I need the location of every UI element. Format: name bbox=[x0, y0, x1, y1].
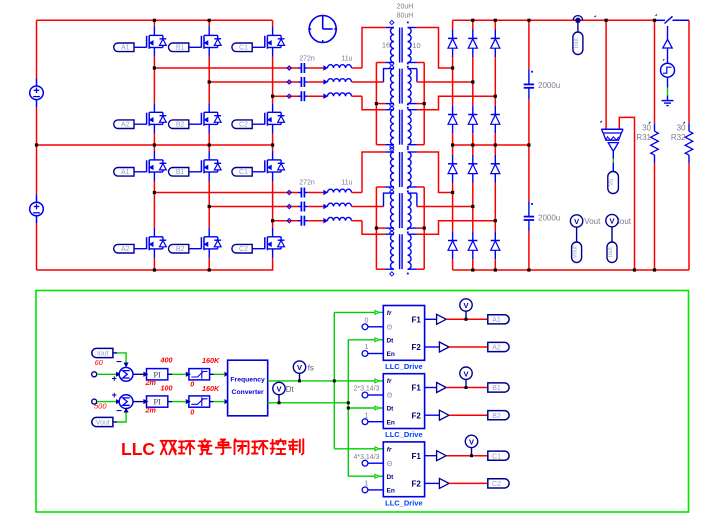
svg-text:Iout: Iout bbox=[97, 350, 109, 357]
wire: F2 output drive 3 bbox=[449, 482, 488, 484]
svg-text:1: 1 bbox=[365, 412, 369, 419]
wire: cap to inductor phase A bridge2 bbox=[308, 192, 324, 194]
gate label C2 (bridge 2) bbox=[232, 244, 252, 253]
transformer T4 bbox=[385, 145, 417, 194]
wire: bridge2 primary neutral bbox=[375, 187, 377, 269]
wire: source column bbox=[36, 20, 38, 78]
mosfet C1 (bridge 2) bbox=[265, 151, 285, 181]
svg-text:C2: C2 bbox=[239, 246, 248, 253]
wire: F1 output drive 2 bbox=[446, 387, 488, 389]
wire: inductor out phase A bridge2 bbox=[352, 192, 363, 194]
mosfet A1 (bridge 2) bbox=[147, 151, 167, 181]
clock symbol bbox=[309, 16, 336, 43]
capacitor 272n phase B bridge2 bbox=[287, 202, 308, 212]
label flag Iout (reference) bbox=[92, 348, 113, 357]
wire: bridge1 top rail bbox=[37, 19, 273, 21]
summer 1 bbox=[119, 367, 133, 381]
svg-text:2m: 2m bbox=[145, 378, 157, 387]
capacitor 2000u (bottom) bbox=[524, 216, 534, 218]
wire: bridge1 leg C verticals bbox=[272, 20, 274, 26]
wire: rectifier top rail bbox=[453, 19, 655, 21]
wire: bridge1 phase C to resonant tank bbox=[273, 95, 298, 97]
wire: inductor out phase B bridge2 bbox=[352, 206, 384, 208]
inductor 11u phase A bridge1 bbox=[324, 65, 352, 70]
wire: Vout flag to summer 2 bbox=[113, 421, 117, 423]
svg-text:B2: B2 bbox=[176, 246, 185, 253]
wire: PI 1 to limiter 1 bbox=[168, 373, 172, 375]
transformer T2 bbox=[385, 61, 417, 110]
capacitor 272n phase C bridge1 bbox=[287, 91, 308, 101]
svg-text:C1: C1 bbox=[239, 169, 248, 176]
gate label A1 (bridge 1) bbox=[114, 43, 134, 52]
gate label C2 (bridge 1) bbox=[232, 120, 252, 129]
svg-text:60: 60 bbox=[95, 358, 104, 367]
tick marks (misc small markers) bbox=[600, 121, 602, 123]
wire: bridge1 leg A verticals bbox=[153, 20, 155, 26]
svg-text:160K: 160K bbox=[202, 356, 220, 365]
LLC_Drive block 3 bbox=[362, 442, 439, 497]
gate label A2 (bridge 2) bbox=[114, 244, 134, 253]
wire: rectifier column 2 bbox=[472, 20, 474, 29]
limiter 2 bbox=[186, 396, 209, 407]
wire: Dt to drive1 bbox=[348, 339, 375, 341]
svg-text:C2: C2 bbox=[492, 481, 501, 488]
buffer F2 drive 2 bbox=[439, 410, 449, 420]
gate label A1 (bridge 2) bbox=[114, 168, 134, 177]
svg-text:2m: 2m bbox=[145, 406, 157, 415]
limiter 1 bbox=[186, 369, 209, 380]
inductor 11u phase A bridge2 bbox=[324, 189, 352, 194]
buffer F1 drive 3 bbox=[437, 451, 447, 461]
svg-text:−: − bbox=[116, 406, 122, 417]
svg-text:Vout: Vout bbox=[573, 246, 579, 258]
svg-text:Frequency: Frequency bbox=[230, 376, 265, 383]
svg-text:10: 10 bbox=[412, 41, 420, 50]
svg-text:+: + bbox=[112, 374, 117, 384]
svg-text:11u: 11u bbox=[341, 55, 352, 62]
svg-text:R32: R32 bbox=[671, 133, 686, 142]
wire: Vo sensor right input bbox=[619, 117, 634, 270]
resistor R31 bbox=[654, 20, 656, 123]
wire: limiter 1 to frequency converter bbox=[210, 373, 214, 375]
mosfet B2 (bridge 1) bbox=[201, 103, 221, 133]
wire: phase C to T3 primary bbox=[362, 96, 385, 110]
inductor 11u phase C bridge2 bbox=[324, 217, 352, 222]
svg-text:2000u: 2000u bbox=[538, 81, 560, 90]
diode D2 bbox=[468, 30, 477, 58]
wire: fs output bbox=[268, 380, 375, 382]
svg-text:Vout: Vout bbox=[584, 217, 601, 226]
mosfet C2 (bridge 1) bbox=[265, 103, 285, 133]
buffer F2 drive 1 bbox=[439, 342, 449, 352]
wire: F1 output drive 3 bbox=[446, 455, 488, 457]
svg-text:A2: A2 bbox=[492, 345, 501, 352]
svg-text:272n: 272n bbox=[299, 180, 315, 187]
mosfet A1 (bridge 1) bbox=[147, 26, 167, 56]
svg-text:20uH: 20uH bbox=[397, 3, 414, 10]
mosfet A2 (bridge 1) bbox=[147, 103, 167, 133]
wire: cap to inductor phase A bridge1 bbox=[308, 67, 324, 69]
wire: fs bus vertical bbox=[333, 312, 335, 448]
label flag C2 bbox=[488, 479, 509, 488]
gate label B2 (bridge 2) bbox=[169, 244, 189, 253]
svg-text:LLC_Drive: LLC_Drive bbox=[385, 498, 423, 507]
resistor R32 bbox=[688, 20, 690, 123]
mosfet B1 (bridge 1) bbox=[201, 26, 221, 56]
wire: rectifier column 1 bbox=[452, 20, 454, 29]
mosfet B2 (bridge 2) bbox=[201, 228, 221, 258]
wire: rectifier column 3 bbox=[494, 20, 496, 29]
wire: T1 secondary to rectifier phase 1 bbox=[417, 28, 453, 69]
wire: summer 2 to PI 2 bbox=[133, 401, 144, 403]
label flag B1 bbox=[488, 383, 509, 392]
svg-text:Iout: Iout bbox=[618, 217, 632, 226]
svg-text:B1: B1 bbox=[176, 169, 185, 176]
wire: F2 output drive 2 bbox=[449, 414, 488, 416]
wire: T4 secondary to rectifier phase 1 bbox=[417, 152, 453, 193]
wire: T5 secondary to rectifier phase 2 bbox=[416, 193, 418, 206]
wire: fs to drive3 fr bbox=[334, 448, 375, 450]
wire: Dt to drive3 bbox=[348, 475, 375, 477]
wire: phase B to T2 primary bbox=[384, 69, 386, 82]
capacitor 272n phase B bridge1 bbox=[287, 77, 308, 87]
wire: cap to inductor phase B bridge1 bbox=[308, 81, 324, 83]
svg-text:0: 0 bbox=[190, 380, 194, 389]
diode D5 bbox=[468, 106, 477, 134]
diode D6 bbox=[491, 106, 500, 134]
svg-text:30: 30 bbox=[642, 124, 651, 133]
wire: inductor out phase B bridge1 bbox=[352, 81, 384, 83]
PI regulator 2 bbox=[144, 396, 168, 407]
svg-text:LLC: LLC bbox=[121, 439, 155, 459]
svg-text:Vo: Vo bbox=[609, 178, 615, 186]
mosfet A2 (bridge 2) bbox=[147, 228, 167, 258]
svg-text:2000u: 2000u bbox=[538, 213, 560, 222]
voltage probe Dt bbox=[278, 395, 280, 403]
buffer F1 drive 1 bbox=[437, 314, 447, 324]
dc source V1 bbox=[30, 86, 44, 100]
svg-text:A1: A1 bbox=[492, 317, 501, 324]
svg-text:A2: A2 bbox=[121, 122, 130, 129]
svg-text:400: 400 bbox=[160, 355, 173, 364]
svg-text:0: 0 bbox=[365, 318, 369, 325]
capacitor 272n phase C bridge2 bbox=[287, 216, 308, 226]
svg-text:160K: 160K bbox=[202, 384, 220, 393]
label flag B2 bbox=[488, 411, 509, 420]
diode D9 bbox=[491, 155, 500, 183]
label flag A2 bbox=[488, 342, 509, 351]
wire: rectifier bottom rail bbox=[453, 269, 689, 271]
wire: Dt bus vertical bbox=[347, 340, 349, 476]
inductor 11u phase C bridge1 bbox=[324, 93, 352, 98]
wire: bridge2 phase A to resonant tank bbox=[154, 192, 298, 194]
wire: cap to inductor phase C bridge1 bbox=[308, 95, 324, 97]
voltage sensor Vo bbox=[601, 128, 623, 130]
wire: F1 output drive 1 bbox=[446, 318, 488, 320]
svg-text:Converter: Converter bbox=[232, 389, 264, 396]
input node circle 2 bbox=[92, 399, 97, 404]
wire: bridge2 leg C verticals bbox=[272, 145, 274, 151]
LLC_Drive block 2 bbox=[362, 374, 439, 429]
wire: T2 secondary to rectifier phase 2 bbox=[416, 69, 418, 82]
wire: inductor out phase C bridge1 bbox=[352, 95, 363, 97]
gate label C1 (bridge 1) bbox=[232, 43, 252, 52]
svg-text:0: 0 bbox=[190, 407, 194, 416]
svg-text:Vout: Vout bbox=[96, 419, 110, 426]
wire: bridge1 phase B to resonant tank bbox=[209, 81, 298, 83]
transformer T5 bbox=[385, 186, 417, 235]
wire: Dt to drive2 bbox=[348, 407, 375, 409]
svg-text:fs: fs bbox=[308, 363, 314, 372]
diode D1 bbox=[448, 30, 457, 58]
inductor 11u phase B bridge1 bbox=[324, 79, 352, 84]
wire: bridge1 primary neutral bbox=[375, 63, 377, 145]
wire: PI 2 to limiter 2 bbox=[168, 401, 172, 403]
wire: bridge2 bottom rail (left) bbox=[37, 269, 274, 271]
svg-text:16: 16 bbox=[382, 41, 390, 50]
gate label B1 (bridge 1) bbox=[169, 43, 189, 52]
svg-text:R31: R31 bbox=[636, 133, 651, 142]
PI regulator 1 bbox=[144, 369, 168, 380]
junction dots power stage bbox=[153, 19, 156, 22]
frequency converter block bbox=[228, 360, 268, 416]
wire: input to summer 2 bbox=[97, 401, 116, 403]
svg-text:C1: C1 bbox=[239, 45, 248, 52]
wire: cap to inductor phase C bridge2 bbox=[308, 220, 324, 222]
transformer T3 bbox=[385, 103, 417, 152]
capacitor 2000u (top) bbox=[524, 83, 534, 85]
gate label B1 (bridge 2) bbox=[169, 168, 189, 177]
svg-text:Iout: Iout bbox=[608, 247, 614, 257]
svg-text:C2: C2 bbox=[239, 122, 248, 129]
wire: bridge2 leg B verticals bbox=[208, 145, 210, 151]
input node circle 1 bbox=[92, 372, 97, 377]
label flag Vo bbox=[608, 172, 619, 194]
voltage probe Vout bbox=[570, 215, 582, 227]
wire: summer 1 to PI 1 bbox=[133, 373, 144, 375]
wire: Dt output bbox=[268, 402, 349, 404]
wire: bridge2 secondary neutral bbox=[423, 187, 425, 269]
diode D4 bbox=[448, 106, 457, 134]
transformer T1 bbox=[385, 20, 417, 69]
mosfet B1 (bridge 2) bbox=[201, 151, 221, 181]
wire: phase B to T5 primary bbox=[384, 193, 386, 206]
wire: bridge1 phase A to resonant tank bbox=[154, 67, 298, 69]
mosfet C1 (bridge 1) bbox=[265, 26, 285, 56]
diode D8 bbox=[468, 155, 477, 183]
transformer T6 bbox=[385, 227, 417, 276]
wire: inductor out phase A bridge1 bbox=[352, 67, 363, 69]
voltage probe on F1 drive 2 bbox=[465, 379, 467, 387]
wire: output cap string bbox=[528, 20, 530, 69]
current probe Iout (on output bus) bbox=[575, 18, 580, 23]
svg-text:1: 1 bbox=[365, 344, 369, 351]
wire: input to summer 1 bbox=[97, 373, 116, 375]
wire: F2 output drive 1 bbox=[449, 346, 488, 348]
junction dots control bbox=[298, 379, 301, 382]
svg-text:LLC_Drive: LLC_Drive bbox=[385, 362, 423, 371]
wire: bridge2 phase C to resonant tank bbox=[273, 220, 298, 222]
label flag Vout (feedback) bbox=[92, 417, 113, 426]
wire: T6 secondary to rectifier phase 3 bbox=[417, 221, 495, 235]
svg-text:1: 1 bbox=[365, 481, 369, 488]
voltage probe on F1 drive 1 bbox=[465, 311, 467, 319]
current probe flag Iout bbox=[606, 214, 618, 226]
wire: phase C to T6 primary bbox=[362, 221, 385, 235]
voltage probe on F1 drive 3 bbox=[471, 448, 473, 456]
svg-text:LLC_Drive: LLC_Drive bbox=[385, 430, 423, 439]
svg-text:30: 30 bbox=[677, 124, 686, 133]
diode D3 bbox=[491, 30, 500, 58]
svg-text:Iout: Iout bbox=[574, 38, 580, 48]
svg-text:Dt: Dt bbox=[286, 385, 295, 394]
on-off controller bbox=[663, 39, 672, 48]
dc source V2 bbox=[30, 202, 44, 216]
capacitor 272n phase A bridge2 bbox=[287, 188, 308, 198]
LLC_Drive block 1 bbox=[362, 306, 439, 361]
inductor 11u phase B bridge2 bbox=[324, 203, 352, 208]
voltage probe fs bbox=[299, 373, 301, 381]
wire: cap to inductor phase B bridge2 bbox=[308, 206, 324, 208]
wire: phase A to T1 primary bbox=[362, 28, 385, 69]
svg-text:B1: B1 bbox=[176, 45, 185, 52]
summer 2 bbox=[119, 395, 133, 409]
wire: limiter 2 to frequency converter bbox=[210, 401, 214, 403]
label flag C1 bbox=[488, 451, 509, 460]
svg-text:B2: B2 bbox=[492, 413, 501, 420]
capacitor 272n phase A bridge1 bbox=[287, 63, 308, 73]
diode D11 bbox=[468, 232, 477, 260]
wire: phase A to T4 primary bbox=[362, 152, 385, 193]
switch SW1 bbox=[655, 19, 666, 21]
gate label C1 (bridge 2) bbox=[232, 168, 252, 177]
label flag A1 bbox=[488, 315, 509, 324]
svg-text:100: 100 bbox=[161, 384, 173, 393]
wire: inductor out phase C bridge2 bbox=[352, 220, 363, 222]
svg-text:4*3.14/3: 4*3.14/3 bbox=[353, 454, 379, 461]
svg-text:A1: A1 bbox=[121, 45, 130, 52]
wire: bridge2 leg A verticals bbox=[153, 145, 155, 151]
wire: Vo sensor left input bbox=[605, 20, 607, 129]
svg-text:B2: B2 bbox=[176, 122, 185, 129]
buffer F2 drive 3 bbox=[439, 478, 449, 488]
wire: T3 secondary to rectifier phase 3 bbox=[417, 96, 495, 110]
mosfet C2 (bridge 2) bbox=[265, 228, 285, 258]
wire: shared mid rail (left) bbox=[37, 144, 273, 146]
ground bbox=[662, 100, 674, 102]
svg-text:−: − bbox=[116, 357, 122, 368]
svg-text:80uH: 80uH bbox=[397, 12, 414, 19]
gate label A2 (bridge 1) bbox=[114, 120, 134, 129]
svg-text:+: + bbox=[112, 390, 117, 400]
diode D12 bbox=[491, 232, 500, 260]
svg-text:272n: 272n bbox=[299, 55, 315, 62]
svg-text:A1: A1 bbox=[121, 169, 130, 176]
svg-text:11u: 11u bbox=[341, 180, 352, 187]
svg-text:B1: B1 bbox=[492, 385, 501, 392]
svg-text:A2: A2 bbox=[121, 246, 130, 253]
wire: bridge2 phase B to resonant tank bbox=[209, 206, 298, 208]
wire: rectifier mid rail bbox=[453, 144, 529, 146]
svg-text:C1: C1 bbox=[492, 453, 501, 460]
control section boundary (green box) bbox=[36, 291, 689, 513]
step source (switch gating) bbox=[661, 63, 675, 77]
gate label B2 (bridge 1) bbox=[169, 120, 189, 129]
wire: bridge1 secondary neutral bbox=[423, 63, 425, 145]
wire: switch control bbox=[667, 26, 669, 40]
wire: fs to drive1 fr bbox=[334, 311, 375, 313]
wire: bridge1 leg B verticals bbox=[208, 20, 210, 26]
svg-text:2*3.14/3: 2*3.14/3 bbox=[353, 386, 379, 393]
diode D10 bbox=[448, 232, 457, 260]
diode D7 bbox=[448, 155, 457, 183]
wire: Iout flag to summer 1 bbox=[113, 352, 117, 354]
buffer F1 drive 2 bbox=[437, 383, 447, 393]
